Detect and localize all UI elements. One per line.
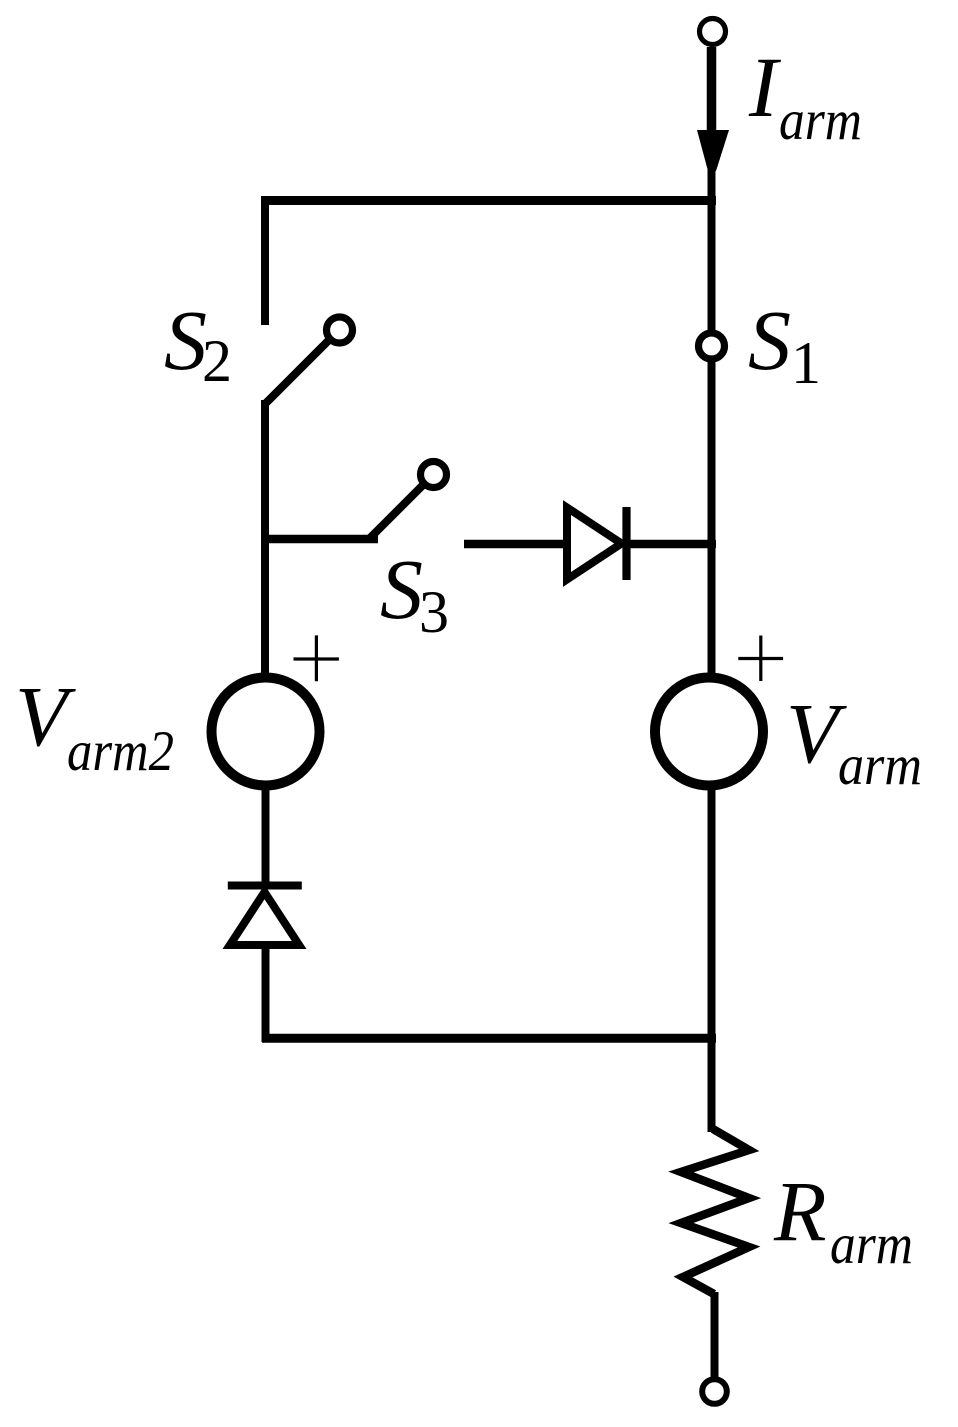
switch S3 circle [421, 462, 447, 488]
arrow Iarm shaft [707, 47, 717, 134]
switch S2 blade [265, 340, 329, 404]
wire left upper vertical [261, 196, 269, 325]
resistor Rarm zigzag [681, 1129, 749, 1294]
voltage source Varm2 circle [212, 678, 320, 786]
svg-text:3: 3 [419, 579, 449, 645]
svg-text:S: S [380, 541, 423, 637]
diode D2 triangle [230, 892, 299, 945]
wire right source to resistor [708, 785, 716, 1132]
wire left diode to corner [262, 947, 270, 1042]
wire right S1 to source [708, 361, 716, 678]
switch S1 circle [699, 333, 725, 359]
wire left middle vertical [261, 400, 269, 678]
svg-text:arm: arm [779, 89, 862, 152]
terminal top [700, 19, 726, 45]
wire bottom horizontal [262, 1034, 716, 1043]
diode D1 anode wire [464, 540, 569, 549]
wire left source to diode [262, 785, 270, 884]
diode D1 cathode bar [622, 507, 630, 580]
arrow Iarm head [697, 130, 729, 171]
svg-text:arm: arm [838, 734, 922, 797]
plus sign left [294, 635, 339, 681]
svg-text:1: 1 [791, 330, 821, 396]
svg-text:I: I [748, 39, 781, 135]
wire resistor to bottom terminal [711, 1292, 719, 1378]
switch S3 stub wire [262, 535, 378, 544]
voltage source Varm circle [655, 678, 763, 786]
diode D1 triangle [567, 508, 622, 580]
terminal bottom [702, 1379, 727, 1404]
diode D1 cathode wire [626, 540, 716, 549]
plus sign right [738, 636, 783, 682]
svg-text:S: S [164, 292, 207, 388]
wire right top vertical [708, 168, 716, 331]
svg-text:S: S [748, 292, 791, 388]
svg-text:arm: arm [830, 1213, 913, 1276]
svg-text:R: R [773, 1163, 827, 1259]
switch S2 circle [327, 317, 353, 343]
wire top horizontal [262, 196, 716, 205]
switch S3 blade [370, 485, 423, 538]
diode D2 cathode bar [228, 882, 302, 890]
svg-text:2: 2 [202, 328, 232, 394]
svg-text:arm2: arm2 [67, 720, 174, 783]
